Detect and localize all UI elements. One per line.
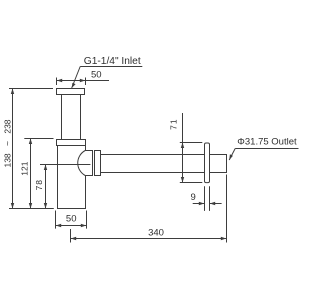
dimension 138~238: top witness line — [9, 88, 53, 90]
wall flange — [205, 143, 210, 183]
dimension 340: witness lines — [70, 229, 72, 243]
svg-text:Φ31.75 Outlet: Φ31.75 Outlet — [237, 136, 297, 147]
dimension 50 top: dimension line — [57, 80, 110, 82]
svg-text:340: 340 — [148, 227, 164, 238]
dimension 78: dimension line — [45, 165, 47, 209]
svg-text:78: 78 — [34, 179, 44, 190]
dimension 50 top: witness lines — [56, 78, 58, 86]
inlet leader line — [80, 66, 142, 68]
elbow ring nut — [95, 151, 101, 176]
shared bottom witness line — [9, 208, 54, 210]
outlet leader line — [235, 148, 298, 150]
dimension 78: centerline witness — [40, 164, 90, 166]
dimension 50 bottom: witness lines — [55, 211, 57, 229]
dimension 71: dimension line — [182, 113, 184, 183]
svg-text:50: 50 — [66, 214, 77, 225]
outlet pipe — [101, 155, 227, 173]
dimension 9: dimension line with outside arrows — [193, 203, 205, 205]
dimension 121: top witness line — [24, 138, 53, 140]
inlet flange — [57, 89, 85, 95]
trap body — [58, 146, 86, 209]
dimension 138~238: dimension line — [12, 89, 14, 209]
dimension 9: witness lines — [204, 186, 206, 211]
svg-text:71: 71 — [169, 118, 179, 129]
dimension 340: dimension line — [71, 238, 227, 240]
inlet pipe — [61, 95, 63, 140]
svg-text:G1-1/4" Inlet: G1-1/4" Inlet — [84, 56, 141, 67]
svg-text:138 ~ 238: 138 ~ 238 — [2, 119, 12, 167]
elbow dome — [78, 151, 93, 176]
svg-text:50: 50 — [91, 69, 102, 80]
dimension 71: witness lines — [180, 142, 203, 144]
dimension 121: dimension line — [30, 139, 32, 209]
svg-text:121: 121 — [20, 161, 30, 175]
dimension 50 bottom: dimension line — [56, 225, 87, 227]
svg-text:9: 9 — [191, 192, 196, 203]
inlet nut — [57, 140, 86, 146]
